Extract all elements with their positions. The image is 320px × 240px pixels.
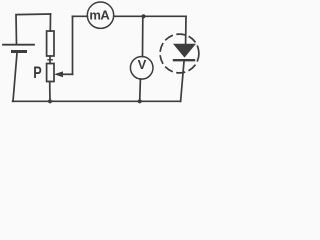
wire top lead into resistor R1: [49, 14, 51, 31]
wire down to voltmeter: [142, 16, 144, 56]
photodiode D1 cathode bar: [174, 59, 194, 61]
photodiode D1 anode triangle: [173, 44, 196, 58]
wire photodiode cathode to bottom rail: [181, 61, 184, 101]
photodiode D1 dashed envelope circle: [160, 34, 199, 73]
battery B1 positive plate: [3, 44, 34, 46]
svg-text:mA: mA: [89, 7, 110, 22]
potentiometer wiper arrow shaft: [60, 73, 73, 75]
wire riser to milliammeter: [73, 15, 88, 17]
node junction dot voltmeter-bottom rail: [138, 99, 142, 103]
junction tick between R1 and P: [48, 59, 52, 61]
wire voltmeter to bottom rail: [139, 79, 142, 101]
battery B1 negative plate: [11, 50, 27, 53]
wire P bottom lead to bottom rail: [49, 82, 51, 102]
milliammeter U1 circle: [87, 2, 113, 28]
wire battery- down to bottom rail: [13, 53, 17, 101]
svg-text:V: V: [138, 57, 147, 72]
node junction dot voltmeter tap: [141, 14, 145, 18]
svg-text:P: P: [33, 64, 42, 82]
potentiometer wiper arrowhead: [54, 71, 63, 77]
node junction dot P-bottom rail: [48, 99, 52, 103]
voltmeter U2 circle: [130, 57, 153, 80]
wire milliammeter to right: [114, 15, 186, 17]
wire top-right corner down to photodiode D1: [185, 16, 187, 44]
wire wiper riser up: [72, 16, 74, 74]
wire R1 to potentiometer P: [49, 56, 51, 64]
potentiometer P body: [47, 64, 54, 82]
resistor R1 body: [47, 31, 54, 56]
bottom rail wire: [13, 100, 181, 102]
wire battery+ to top-left corner: [16, 14, 51, 44]
